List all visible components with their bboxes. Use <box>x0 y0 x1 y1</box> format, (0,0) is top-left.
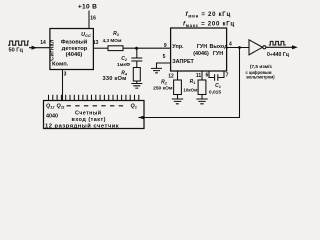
svg-text:Q11: Q11 <box>57 104 65 110</box>
svg-text:4040: 4040 <box>46 114 58 120</box>
svg-text:+10 В: +10 В <box>78 4 97 11</box>
svg-text:13: 13 <box>93 40 99 46</box>
svg-text:Сигнал: Сигнал <box>49 39 55 61</box>
svg-text:4,3 МОм: 4,3 МОм <box>103 38 122 43</box>
svg-text:(4046): (4046) <box>193 51 209 57</box>
svg-text:5: 5 <box>163 54 166 60</box>
svg-text:Q12: Q12 <box>46 104 55 110</box>
svg-text:10кОм: 10кОм <box>183 88 198 93</box>
svg-text:11: 11 <box>196 73 202 79</box>
svg-text:R2: R2 <box>161 80 168 86</box>
svg-text:fмин = 20 кГц: fмин = 20 кГц <box>186 11 231 18</box>
svg-text:детектор: детектор <box>62 46 88 52</box>
svg-text:Выход: Выход <box>209 44 228 50</box>
svg-text:0÷440 Гц: 0÷440 Гц <box>267 52 290 58</box>
svg-text:Q1: Q1 <box>131 104 137 110</box>
svg-text:fмакс = 200 кГц: fмакс = 200 кГц <box>183 21 235 28</box>
svg-text:12 разрядный счетчик: 12 разрядный счетчик <box>45 122 119 129</box>
svg-text:R3: R3 <box>113 31 120 37</box>
svg-text:(4046): (4046) <box>66 52 83 58</box>
svg-text:16: 16 <box>90 16 96 22</box>
svg-text:9: 9 <box>164 43 167 49</box>
svg-text:3: 3 <box>64 72 67 78</box>
svg-text:вход (такт): вход (такт) <box>72 117 106 123</box>
svg-text:0,015: 0,015 <box>209 90 222 96</box>
svg-text:Счетный: Счетный <box>75 110 102 117</box>
svg-text:ЗАПРЕТ: ЗАПРЕТ <box>172 59 194 65</box>
svg-text:7: 7 <box>226 73 229 79</box>
svg-text:14: 14 <box>40 40 46 46</box>
svg-text:4: 4 <box>229 42 232 48</box>
svg-text:R1: R1 <box>190 79 196 85</box>
svg-text:Фазовый: Фазовый <box>61 39 88 46</box>
svg-text:ГУН: ГУН <box>197 44 207 50</box>
svg-text:250 кОм: 250 кОм <box>153 86 173 92</box>
svg-text:1мкФ: 1мкФ <box>117 62 130 68</box>
svg-text:UCC: UCC <box>81 32 91 38</box>
svg-text:C1: C1 <box>215 83 221 89</box>
svg-text:Комп.: Комп. <box>52 62 69 68</box>
svg-text:вольтметром): вольтметром) <box>246 75 275 80</box>
svg-text:50 Гц: 50 Гц <box>9 48 24 54</box>
svg-text:330 кОм: 330 кОм <box>103 76 127 82</box>
svg-text:C2: C2 <box>121 56 128 62</box>
svg-text:12: 12 <box>168 74 174 80</box>
svg-text:Упр.: Упр. <box>172 44 184 50</box>
svg-text:6: 6 <box>206 73 209 79</box>
svg-text:ГУН: ГУН <box>213 51 223 57</box>
